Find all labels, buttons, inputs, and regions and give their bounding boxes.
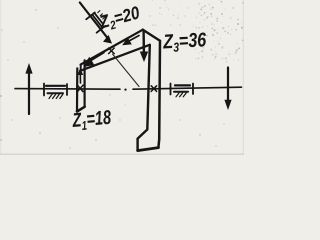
arrow on band near gear Z1 (points down-left) [84,53,104,68]
rotation arrow inside gear Z1 (up) [77,68,83,83]
gear Z3 top oblique edge [143,30,160,41]
band left end cap [80,65,82,72]
x mark on gear Z1 axis [77,85,83,91]
axis centre dot [124,89,126,91]
horizontal main axis (left segment) [15,88,120,91]
arrowhead at inclined shaft end [103,35,112,44]
x mark at central axis crossing [151,86,156,92]
right rotation arrow (down) [224,68,231,111]
gear Z1 body [77,60,85,111]
inclined arm / gear Z2 band lower edge [80,45,150,71]
inclined input shaft top-left [80,3,110,41]
gear Z3 right edge [158,41,160,148]
paper speckle noise [0,5,239,148]
bearing on inclined shaft [86,11,105,33]
thin inclined axis continuation to centre [113,54,140,87]
inclined arm / gear Z2 band upper edge [81,30,143,65]
vertical down arrow at band right corner [140,31,148,62]
horizontal main axis (right segment) [133,87,242,89]
left rotation arrow (up) [25,63,32,114]
arrow on band upper right (points down-left) [122,36,139,46]
x mark on band (inclined shaft axis) [109,48,115,54]
scan edge shading [0,153,244,155]
gear Z3 bottom edge [138,148,159,151]
left bearing on input shaft [44,84,67,99]
gear Z3 left edge with bottom flange [138,45,150,151]
right bearing on output shaft [171,84,194,97]
